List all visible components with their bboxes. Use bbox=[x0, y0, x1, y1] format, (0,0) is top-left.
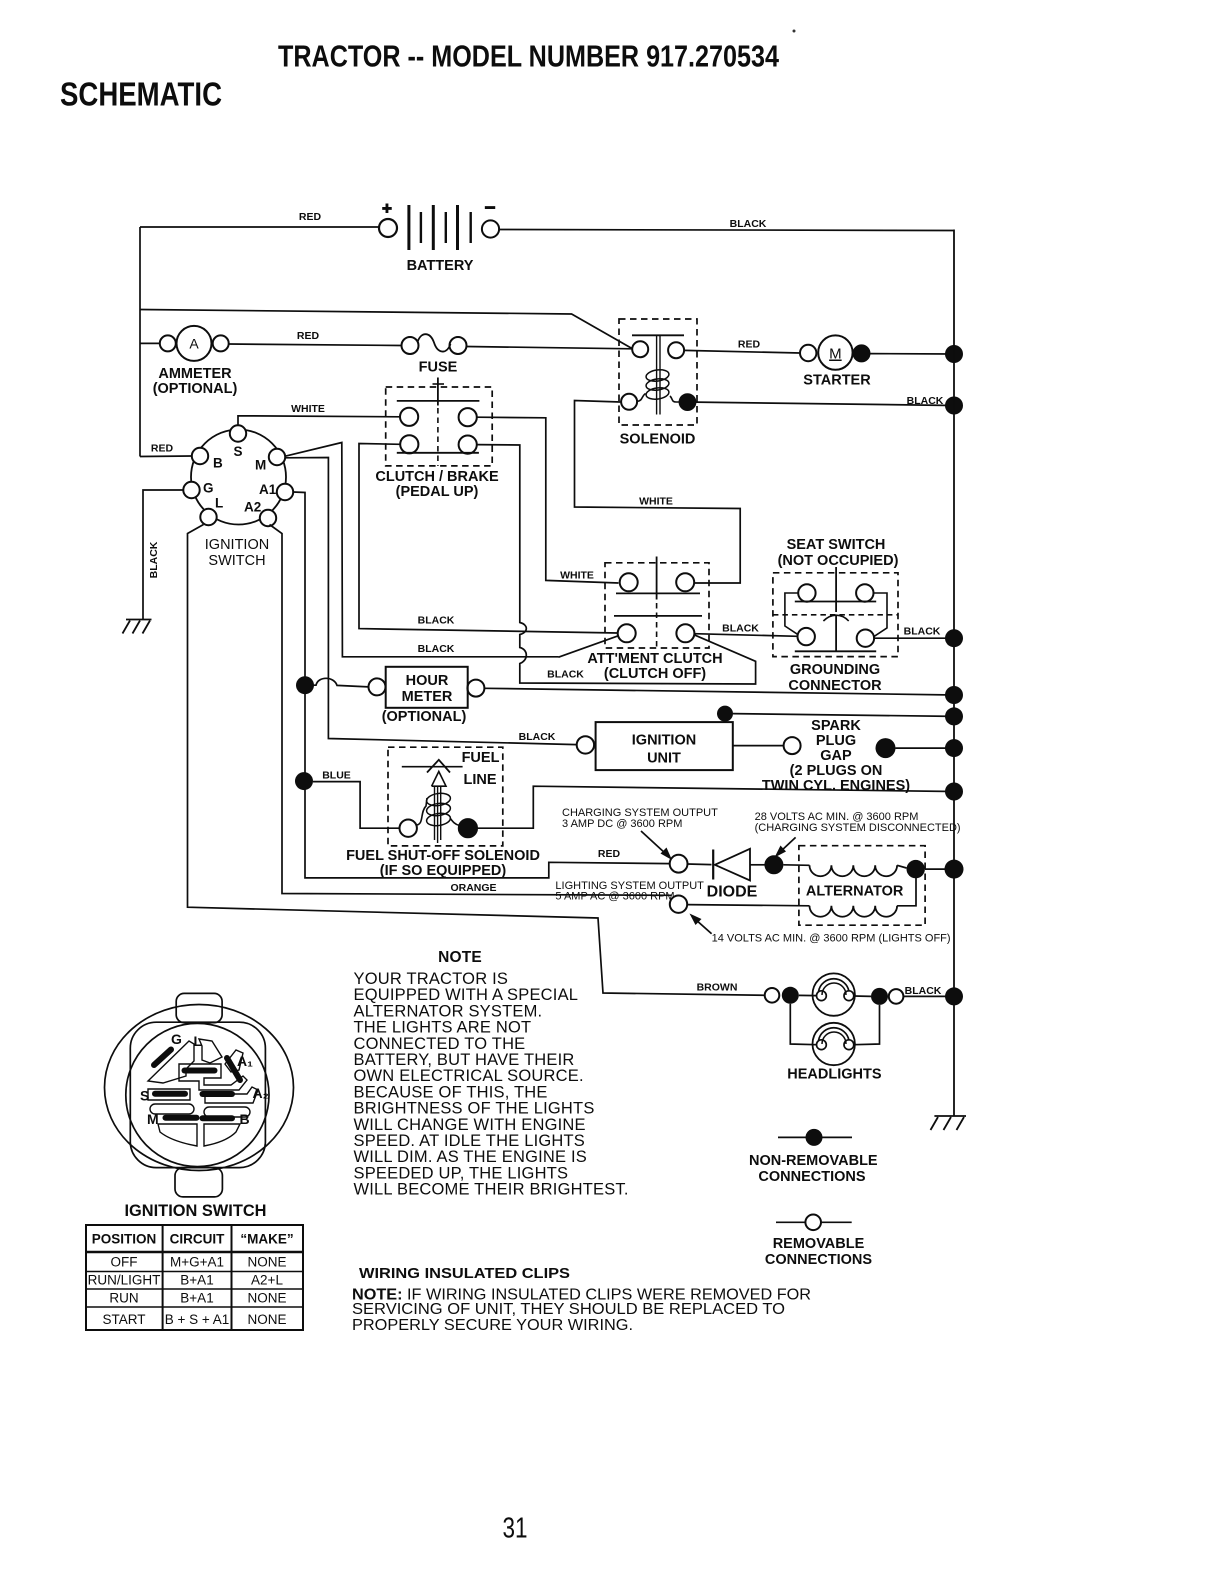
junction dot rail starter bbox=[945, 345, 963, 363]
fuel shut-off solenoid bbox=[346, 747, 540, 879]
svg-text:POSITION: POSITION bbox=[92, 1232, 157, 1247]
svg-text:BLACK: BLACK bbox=[722, 623, 759, 635]
svg-text:IGNITION: IGNITION bbox=[205, 537, 269, 553]
svg-text:A2: A2 bbox=[244, 500, 261, 515]
svg-text:B+A1: B+A1 bbox=[180, 1291, 213, 1306]
svg-text:31: 31 bbox=[503, 1513, 528, 1545]
svg-text:WHITE: WHITE bbox=[560, 570, 594, 582]
wire attachment clutch to seat switch BLACK bbox=[694, 623, 797, 637]
wire lighting circle to alternator lower coil bbox=[687, 905, 809, 906]
svg-text:(PEDAL UP): (PEDAL UP) bbox=[396, 484, 479, 500]
svg-text:REMOVABLE: REMOVABLE bbox=[773, 1236, 865, 1252]
svg-text:BLACK: BLACK bbox=[418, 615, 455, 627]
svg-text:HEADLIGHTS: HEADLIGHTS bbox=[787, 1067, 882, 1083]
svg-text:M: M bbox=[255, 458, 266, 473]
svg-text:WHITE: WHITE bbox=[639, 496, 673, 508]
svg-text:TWIN CYL. ENGINES): TWIN CYL. ENGINES) bbox=[762, 778, 910, 794]
wire terminal M to ignition unit (via x=328) BLACK bbox=[285, 458, 577, 745]
svg-text:(OPTIONAL): (OPTIONAL) bbox=[153, 381, 238, 397]
svg-text:(CLUTCH OFF): (CLUTCH OFF) bbox=[604, 666, 706, 682]
svg-text:CIRCUIT: CIRCUIT bbox=[170, 1232, 225, 1247]
svg-text:BLACK: BLACK bbox=[418, 643, 455, 655]
wire clutch/brake lower-left BLACK to attachment clutch bbox=[359, 444, 618, 634]
legend non-removable connection bbox=[749, 1129, 878, 1185]
wire left vertical from battery + bbox=[139, 227, 141, 457]
svg-text:S: S bbox=[234, 444, 243, 459]
svg-text:FUSE: FUSE bbox=[419, 360, 458, 376]
svg-text:SWITCH: SWITCH bbox=[208, 553, 265, 569]
svg-text:B + S + A1: B + S + A1 bbox=[165, 1312, 230, 1327]
svg-text:BLACK: BLACK bbox=[519, 731, 556, 743]
svg-text:RUN: RUN bbox=[109, 1291, 138, 1306]
junction dot rail hour meter bbox=[945, 686, 963, 704]
svg-text:NONE: NONE bbox=[247, 1312, 286, 1327]
svg-text:RUN/LIGHT: RUN/LIGHT bbox=[88, 1273, 161, 1288]
svg-text:–: – bbox=[485, 197, 496, 218]
junction dot rail fuel bbox=[945, 783, 963, 801]
svg-text:(2 PLUGS ON: (2 PLUGS ON bbox=[790, 763, 883, 779]
charging terminal circle bbox=[670, 855, 688, 873]
bottom note bbox=[352, 1287, 811, 1335]
wire battery negative BLACK to right rail bbox=[499, 218, 954, 231]
ignition switch table bbox=[86, 1225, 303, 1330]
svg-text:ATT'MENT CLUTCH: ATT'MENT CLUTCH bbox=[587, 651, 722, 667]
lighting output annotation bbox=[555, 880, 704, 903]
spark plug gap label bbox=[762, 718, 910, 794]
svg-text:GROUNDING: GROUNDING bbox=[790, 662, 880, 678]
svg-text:BLACK: BLACK bbox=[730, 218, 767, 230]
wire RED to terminal B bbox=[140, 443, 192, 457]
svg-text:+: + bbox=[382, 199, 392, 218]
svg-text:A1: A1 bbox=[259, 482, 277, 497]
wire hour meter to rail bbox=[484, 669, 954, 696]
svg-text:SPARK: SPARK bbox=[811, 718, 861, 734]
svg-text:CONNECTIONS: CONNECTIONS bbox=[758, 1169, 865, 1185]
28v arrow bbox=[775, 837, 796, 857]
junction dot rail solenoid bbox=[945, 397, 963, 415]
headlight removable connection circle bbox=[765, 988, 780, 1003]
ground (left) bbox=[123, 620, 152, 634]
legend removable connection bbox=[765, 1215, 872, 1269]
ignition switch connector drawing bbox=[105, 993, 294, 1220]
subtitle SCHEMATIC bbox=[60, 76, 222, 113]
svg-text:A: A bbox=[189, 336, 199, 352]
svg-text:BLACK: BLACK bbox=[904, 626, 941, 638]
wire BLUE to fuel shut-off solenoid bbox=[313, 770, 400, 829]
svg-text:BLACK: BLACK bbox=[148, 541, 160, 578]
wire seat switch to rail BLACK bbox=[874, 626, 954, 639]
wire dot to top headlight bbox=[799, 994, 817, 996]
junction dot rail ignition top bbox=[945, 707, 963, 725]
starter motor M bbox=[800, 335, 871, 388]
svg-text:NONE: NONE bbox=[247, 1255, 286, 1270]
wire to rail BLACK bbox=[903, 985, 954, 997]
svg-text:RED: RED bbox=[151, 443, 174, 455]
svg-text:RED: RED bbox=[598, 848, 621, 860]
svg-text:M: M bbox=[147, 1111, 159, 1127]
headlight top bbox=[813, 973, 855, 1015]
svg-text:TRACTOR -- MODEL NUMBER 917.27: TRACTOR -- MODEL NUMBER 917.270534 bbox=[278, 39, 780, 74]
svg-text:L: L bbox=[194, 1033, 203, 1049]
svg-text:BLACK: BLACK bbox=[905, 985, 942, 997]
svg-text:UNIT: UNIT bbox=[647, 751, 681, 767]
svg-text:ORANGE: ORANGE bbox=[450, 882, 496, 894]
headlight removable circle right bbox=[889, 989, 904, 1004]
wire diode to alternator bbox=[783, 864, 809, 867]
diode output dot bbox=[764, 855, 783, 874]
svg-text:(OPTIONAL): (OPTIONAL) bbox=[382, 709, 467, 725]
wire hop to hour meter bbox=[314, 678, 369, 687]
wire terminal S WHITE to clutch/brake bbox=[238, 403, 400, 425]
svg-text:(IF SO EQUIPPED): (IF SO EQUIPPED) bbox=[380, 863, 507, 879]
solenoid bbox=[619, 319, 697, 448]
junction dot BLUE tap bbox=[295, 772, 313, 790]
svg-text:(CHARGING SYSTEM DISCONNECTED): (CHARGING SYSTEM DISCONNECTED) bbox=[755, 822, 961, 834]
page number bbox=[503, 1513, 528, 1545]
wire ignition unit to spark gap bbox=[733, 745, 784, 747]
wire ignition unit top to rail bbox=[733, 714, 954, 717]
seat switch bbox=[773, 537, 899, 694]
junction dot A1 rail / hour meter tap bbox=[296, 676, 314, 694]
junction dot rail headlights bbox=[945, 987, 963, 1005]
wire terminal A1 down (B+ branch) bbox=[293, 492, 670, 878]
svg-text:RED: RED bbox=[738, 339, 761, 351]
wire solenoid to attachment clutch WHITE bbox=[575, 401, 741, 584]
wire bottom headlight right bbox=[854, 1005, 880, 1045]
junction dot rail seat switch bbox=[945, 629, 963, 647]
svg-text:SERVICING OF UNIT, THEY SHOULD: SERVICING OF UNIT, THEY SHOULD BE REPLAC… bbox=[352, 1301, 785, 1318]
svg-text:BLUE: BLUE bbox=[322, 770, 351, 782]
svg-text:M+G+A1: M+G+A1 bbox=[170, 1255, 224, 1270]
svg-text:“MAKE”: “MAKE” bbox=[240, 1232, 293, 1247]
charging arrow bbox=[641, 831, 672, 860]
wire battery positive RED bbox=[140, 211, 379, 227]
wire terminal G to ground BLACK bbox=[143, 490, 183, 620]
charging output annotation bbox=[562, 807, 718, 830]
headlight junction dot left bbox=[782, 987, 799, 1004]
ammeter A bbox=[140, 326, 237, 397]
svg-text:PLUG: PLUG bbox=[816, 733, 856, 749]
wire battery feed to solenoid bbox=[140, 310, 632, 349]
lighting terminal circle bbox=[670, 896, 687, 913]
wire top headlight to right dot bbox=[854, 995, 871, 997]
spark plug dot bbox=[876, 738, 896, 758]
title bbox=[278, 39, 780, 74]
svg-text:NON-REMOVABLE: NON-REMOVABLE bbox=[749, 1153, 878, 1169]
svg-text:HOUR: HOUR bbox=[406, 673, 449, 689]
svg-text:WHITE: WHITE bbox=[291, 403, 325, 415]
svg-text:SEAT SWITCH: SEAT SWITCH bbox=[787, 537, 886, 553]
svg-text:B: B bbox=[213, 456, 223, 471]
attachment clutch switch bbox=[587, 557, 722, 683]
svg-text:LINE: LINE bbox=[463, 772, 496, 788]
junction dot rail spark bbox=[945, 739, 963, 757]
wire to bottom headlight left bbox=[790, 1004, 816, 1045]
svg-text:AMMETER: AMMETER bbox=[158, 366, 232, 382]
svg-text:B: B bbox=[240, 1111, 250, 1127]
svg-text:CONNECTIONS: CONNECTIONS bbox=[765, 1252, 872, 1268]
wire starter to rail bbox=[870, 353, 954, 355]
svg-text:IGNITION SWITCH: IGNITION SWITCH bbox=[125, 1201, 267, 1220]
14v arrow bbox=[690, 914, 712, 934]
14 volts annotation bbox=[712, 933, 951, 945]
diode D1 bbox=[688, 849, 765, 901]
wire fuse to solenoid bbox=[467, 347, 633, 349]
svg-text:BATTERY: BATTERY bbox=[407, 258, 474, 274]
wire terminal M to attachment clutch (via x=342) bbox=[285, 443, 618, 658]
svg-text:CONNECTOR: CONNECTOR bbox=[788, 678, 882, 694]
svg-text:DIODE: DIODE bbox=[707, 884, 758, 901]
headlight bottom bbox=[813, 1023, 855, 1065]
28 volts annotation bbox=[755, 811, 961, 834]
alternator output dot bbox=[907, 860, 925, 878]
hour meter bbox=[369, 667, 485, 725]
svg-text:START: START bbox=[102, 1312, 145, 1327]
wire terminal A2 to lighting ORANGE bbox=[270, 525, 672, 896]
headlight junction dot right bbox=[871, 988, 888, 1005]
svg-text:BROWN: BROWN bbox=[697, 982, 738, 994]
wire fuel solenoid to rail bbox=[478, 786, 955, 828]
svg-text:A2+L: A2+L bbox=[251, 1273, 283, 1288]
svg-text:5 AMP AC @ 3600 RPM: 5 AMP AC @ 3600 RPM bbox=[555, 891, 674, 903]
svg-text:FUEL: FUEL bbox=[462, 750, 500, 766]
wire spark plug to rail bbox=[896, 747, 955, 749]
svg-text:B+A1: B+A1 bbox=[180, 1273, 213, 1288]
wire clutch/brake lower-right to attachment clutch (hops) bbox=[477, 445, 756, 684]
svg-text:GAP: GAP bbox=[820, 748, 852, 764]
ignition switch (schematic) bbox=[183, 425, 293, 569]
svg-text:G: G bbox=[203, 481, 214, 496]
svg-text:WIRING INSULATED CLIPS: WIRING INSULATED CLIPS bbox=[359, 1265, 570, 1282]
svg-text:OFF: OFF bbox=[111, 1255, 138, 1270]
svg-text:NONE: NONE bbox=[247, 1291, 286, 1306]
svg-text:IGNITION: IGNITION bbox=[632, 733, 696, 749]
svg-text:SCHEMATIC: SCHEMATIC bbox=[60, 76, 222, 113]
svg-text:BLACK: BLACK bbox=[907, 395, 944, 407]
wire ammeter to fuse RED bbox=[229, 330, 402, 346]
right ground rail bbox=[953, 230, 955, 1117]
battery B1 bbox=[379, 197, 499, 274]
ground (right, bottom of rail) bbox=[931, 1116, 967, 1130]
svg-text:(NOT OCCUPIED): (NOT OCCUPIED) bbox=[778, 553, 899, 569]
svg-text:STARTER: STARTER bbox=[803, 373, 871, 389]
svg-text:14 VOLTS AC MIN. @ 3600 RPM (L: 14 VOLTS AC MIN. @ 3600 RPM (LIGHTS OFF) bbox=[712, 933, 951, 945]
wire solenoid coil to rail BLACK bbox=[696, 395, 954, 407]
junction dot ignition unit top bbox=[717, 706, 733, 722]
note block bbox=[354, 949, 629, 1199]
wire terminal L to headlights BROWN bbox=[188, 525, 765, 996]
svg-text:PROPERLY SECURE YOUR WIRING.: PROPERLY SECURE YOUR WIRING. bbox=[352, 1317, 633, 1334]
svg-text:SOLENOID: SOLENOID bbox=[620, 432, 696, 448]
svg-text:CLUTCH / BRAKE: CLUTCH / BRAKE bbox=[375, 469, 499, 485]
svg-text:G: G bbox=[171, 1031, 182, 1047]
svg-text:FUEL SHUT-OFF SOLENOID: FUEL SHUT-OFF SOLENOID bbox=[346, 848, 540, 864]
headlights label bbox=[787, 1067, 882, 1083]
svg-text:RED: RED bbox=[297, 330, 320, 342]
wiring insulated clips heading bbox=[359, 1265, 570, 1282]
wire solenoid to starter RED bbox=[684, 339, 800, 354]
svg-text:RED: RED bbox=[299, 211, 322, 223]
svg-text:A₂: A₂ bbox=[253, 1085, 269, 1101]
svg-text:METER: METER bbox=[402, 689, 453, 705]
spark plug gap terminal circle bbox=[784, 737, 801, 754]
alternator bbox=[799, 846, 925, 926]
svg-text:NOTE: NOTE bbox=[438, 949, 482, 966]
clutch/brake switch bbox=[375, 378, 499, 501]
ignition unit bbox=[577, 722, 733, 770]
svg-text:S: S bbox=[140, 1088, 149, 1104]
wire clutch/brake upper-right WHITE to attachment clutch bbox=[477, 417, 619, 583]
svg-text:ALTERNATOR: ALTERNATOR bbox=[806, 884, 904, 900]
fuse F1 bbox=[402, 334, 467, 375]
wire alternator to rail bbox=[925, 868, 954, 870]
svg-text:3 AMP DC @ 3600 RPM: 3 AMP DC @ 3600 RPM bbox=[562, 818, 682, 830]
svg-text:BLACK: BLACK bbox=[547, 669, 584, 681]
speck bbox=[793, 30, 796, 33]
junction dot rail alternator bbox=[945, 860, 964, 879]
svg-text:WILL BECOME THEIR BRIGHTEST.: WILL BECOME THEIR BRIGHTEST. bbox=[354, 1181, 629, 1199]
svg-text:M: M bbox=[829, 346, 842, 363]
svg-text:A₁: A₁ bbox=[237, 1053, 253, 1069]
svg-text:L: L bbox=[215, 496, 223, 511]
